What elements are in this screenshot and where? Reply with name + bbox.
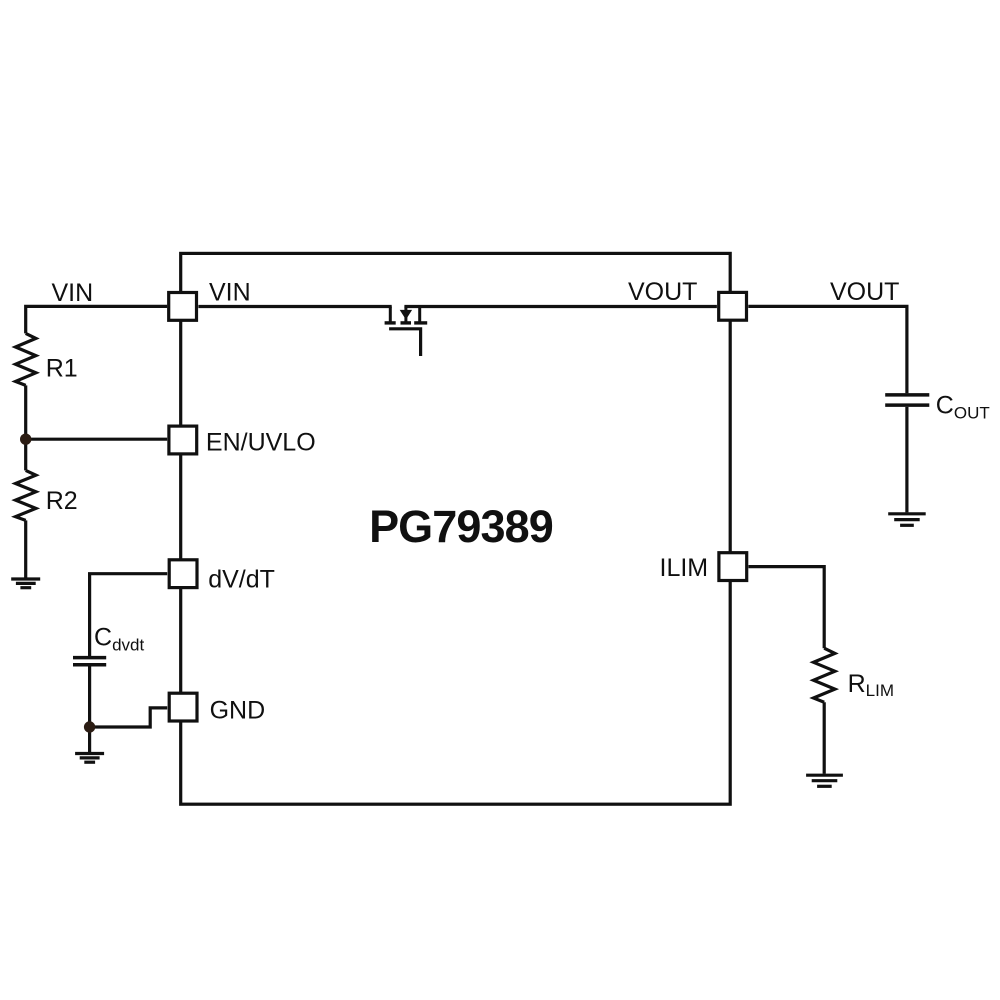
- svg-text:VIN: VIN: [209, 279, 251, 307]
- wire node A to EN/UVLO pin: [26, 438, 168, 441]
- resistor RLIM: [814, 648, 835, 702]
- svg-text:Cdvdt: Cdvdt: [94, 623, 144, 654]
- resistor R1: [16, 333, 36, 385]
- wire ILIM pin to RLIM: [749, 567, 825, 649]
- wire VOUT pin to VOUT net and COUT: [748, 306, 907, 393]
- wire Cdvdt to node B: [88, 666, 91, 727]
- wire dV/dT pin to Cdvdt: [90, 574, 168, 657]
- ground below COUT: [888, 514, 926, 526]
- svg-text:dV/dT: dV/dT: [208, 566, 275, 594]
- resistor R2: [16, 470, 36, 520]
- svg-text:GND: GND: [210, 697, 266, 725]
- ground below RLIM: [806, 775, 843, 786]
- capacitor Cdvdt: [73, 658, 106, 665]
- node B junction dot: [84, 721, 95, 732]
- svg-text:ILIM: ILIM: [660, 554, 709, 582]
- pin ILIM: [719, 553, 747, 581]
- svg-text:VOUT: VOUT: [628, 278, 697, 306]
- pin dV/dT: [169, 560, 197, 588]
- wire R1 to node A: [24, 385, 27, 439]
- wire COUT to ground: [905, 407, 908, 513]
- wire VIN net to VIN pin: [26, 306, 168, 333]
- svg-text:VOUT: VOUT: [830, 278, 899, 306]
- wire Q1 source to VOUT pin: [404, 305, 717, 308]
- node A junction dot: [20, 434, 31, 445]
- svg-text:R1: R1: [46, 354, 78, 382]
- ground below Cdvdt: [75, 754, 104, 763]
- pin GND: [169, 693, 197, 721]
- capacitor COUT: [885, 395, 929, 405]
- svg-text:R2: R2: [46, 487, 78, 515]
- svg-text:VIN: VIN: [52, 279, 94, 307]
- svg-text:EN/UVLO: EN/UVLO: [206, 429, 316, 457]
- svg-text:PG79389: PG79389: [369, 501, 553, 552]
- transistor Q1 pass FET: [385, 307, 428, 357]
- pin VIN: [169, 293, 197, 321]
- svg-text:COUT: COUT: [936, 392, 990, 423]
- wire RLIM to ground: [823, 702, 826, 774]
- pin VOUT: [719, 292, 747, 320]
- wire node B to GND pin: [90, 708, 168, 727]
- wire VIN pin to Q1 drain: [198, 305, 391, 308]
- wire node B to ground: [88, 727, 91, 752]
- wire node A to R2: [24, 439, 27, 470]
- ground below R2: [11, 579, 40, 588]
- IC U1 body: [181, 253, 731, 804]
- svg-text:RLIM: RLIM: [848, 670, 894, 700]
- wire R2 to ground: [24, 520, 27, 577]
- pin EN/UVLO: [169, 426, 197, 454]
